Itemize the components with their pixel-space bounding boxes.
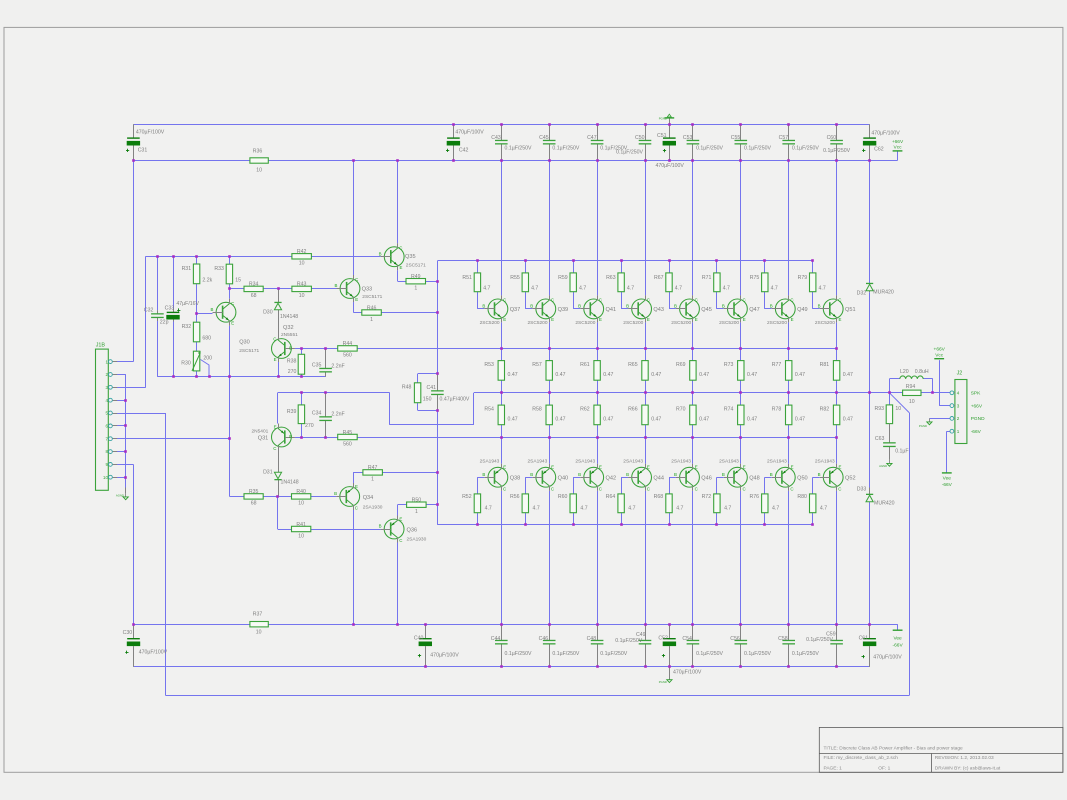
svg-text:C55: C55 <box>731 135 741 141</box>
svg-text:0.1µF/250V: 0.1µF/250V <box>505 145 532 151</box>
svg-text:E: E <box>551 465 554 470</box>
svg-text:4.7: 4.7 <box>483 286 490 292</box>
svg-text:470µF/100V: 470µF/100V <box>139 649 168 655</box>
svg-text:0.1µF/250V: 0.1µF/250V <box>823 148 850 154</box>
svg-text:10: 10 <box>298 533 304 539</box>
svg-text:R53: R53 <box>484 362 494 368</box>
svg-text:R43: R43 <box>297 282 307 288</box>
svg-text:10: 10 <box>909 399 915 405</box>
svg-text:B: B <box>818 304 821 309</box>
svg-text:E: E <box>647 317 650 322</box>
svg-text:C44: C44 <box>491 636 501 642</box>
svg-text:E: E <box>743 465 746 470</box>
svg-text:R61: R61 <box>580 362 590 368</box>
svg-text:R82: R82 <box>820 406 830 412</box>
svg-text:2.2k: 2.2k <box>202 278 212 284</box>
svg-text:4.7: 4.7 <box>675 286 682 292</box>
svg-text:R32: R32 <box>182 324 192 330</box>
svg-text:0.1µF/250V: 0.1µF/250V <box>615 638 642 644</box>
svg-text:Q32: Q32 <box>283 325 294 331</box>
svg-text:C32: C32 <box>144 307 154 313</box>
svg-text:4.7: 4.7 <box>723 286 730 292</box>
svg-text:0.47: 0.47 <box>795 372 805 378</box>
svg-text:R45: R45 <box>343 430 353 436</box>
svg-text:C35: C35 <box>312 363 322 369</box>
svg-text:2SA1943: 2SA1943 <box>575 458 595 464</box>
svg-text:R68: R68 <box>654 494 664 500</box>
svg-text:AGND: AGND <box>116 494 124 498</box>
svg-text:C60: C60 <box>827 135 837 141</box>
svg-text:MUR420: MUR420 <box>873 290 894 296</box>
svg-text:R54: R54 <box>484 406 494 412</box>
svg-text:2N5551: 2N5551 <box>281 332 298 338</box>
svg-text:C: C <box>551 298 554 303</box>
svg-text:C: C <box>599 486 602 491</box>
svg-text:R31: R31 <box>182 266 192 272</box>
svg-text:R69: R69 <box>676 362 686 368</box>
svg-text:0.8uH: 0.8uH <box>915 369 929 375</box>
svg-text:1: 1 <box>371 477 374 483</box>
svg-text:C: C <box>743 298 746 303</box>
svg-text:2SA1943: 2SA1943 <box>671 458 691 464</box>
svg-text:C: C <box>399 538 402 543</box>
svg-text:2N5401: 2N5401 <box>251 428 268 434</box>
svg-text:Q39: Q39 <box>558 307 569 313</box>
svg-text:C: C <box>355 506 358 511</box>
svg-text:4.7: 4.7 <box>676 506 683 512</box>
svg-text:Q41: Q41 <box>606 307 617 313</box>
svg-text:E: E <box>839 317 842 322</box>
svg-text:R30: R30 <box>181 360 191 366</box>
svg-text:68: 68 <box>251 501 257 507</box>
svg-text:4.7: 4.7 <box>531 286 538 292</box>
svg-text:0.1µF/250V: 0.1µF/250V <box>616 149 643 155</box>
svg-text:C: C <box>273 446 276 451</box>
svg-text:R33: R33 <box>214 266 224 272</box>
svg-text:B: B <box>626 472 629 477</box>
svg-text:Q40: Q40 <box>558 475 569 481</box>
svg-text:R64: R64 <box>606 494 616 500</box>
svg-text:0.1µF/250V: 0.1µF/250V <box>792 145 819 151</box>
svg-text:C: C <box>551 486 554 491</box>
svg-text:DRAWN BY: (c) asb@aws-it.at: DRAWN BY: (c) asb@aws-it.at <box>935 766 1001 772</box>
svg-text:0.47: 0.47 <box>555 372 565 378</box>
svg-text:470µF/100V: 470µF/100V <box>136 129 165 135</box>
svg-text:0.47: 0.47 <box>747 417 757 423</box>
svg-text:B: B <box>482 304 485 309</box>
svg-text:R62: R62 <box>580 406 590 412</box>
svg-text:270: 270 <box>288 369 297 375</box>
svg-text:B: B <box>722 304 725 309</box>
svg-text:10: 10 <box>299 293 305 299</box>
svg-text:J1B: J1B <box>96 342 106 348</box>
svg-text:E: E <box>599 317 602 322</box>
svg-text:Q36: Q36 <box>407 527 418 533</box>
svg-text:E: E <box>551 317 554 322</box>
svg-text:4.7: 4.7 <box>485 506 492 512</box>
svg-text:C: C <box>790 298 793 303</box>
svg-text:E: E <box>355 484 358 489</box>
svg-text:0.1µF/250V: 0.1µF/250V <box>600 651 627 657</box>
svg-text:B: B <box>210 307 213 312</box>
svg-text:REVISION: 1.2, 2013.02.03: REVISION: 1.2, 2013.02.03 <box>935 755 994 761</box>
svg-text:R71: R71 <box>702 275 712 281</box>
svg-text:Q31: Q31 <box>258 435 269 441</box>
svg-text:10: 10 <box>256 167 262 173</box>
svg-text:R57: R57 <box>532 362 542 368</box>
svg-text:R38: R38 <box>287 358 297 364</box>
svg-text:B: B <box>379 524 382 529</box>
svg-text:B: B <box>289 434 292 439</box>
svg-text:R74: R74 <box>724 406 734 412</box>
svg-text:2SC5171: 2SC5171 <box>406 262 426 268</box>
svg-text:0.1µF: 0.1µF <box>895 448 908 454</box>
svg-text:0.47: 0.47 <box>699 417 709 423</box>
svg-text:B: B <box>674 304 677 309</box>
svg-text:0.47µF/400V: 0.47µF/400V <box>440 397 470 403</box>
svg-text:Q42: Q42 <box>606 475 617 481</box>
svg-text:B: B <box>289 346 292 351</box>
svg-text:R56: R56 <box>510 494 520 500</box>
svg-text:2SC5171: 2SC5171 <box>239 348 259 354</box>
svg-text:Q44: Q44 <box>653 475 664 481</box>
svg-text:C42: C42 <box>459 148 469 154</box>
svg-text:0.1µF/250V: 0.1µF/250V <box>552 145 579 151</box>
svg-text:TITLE: Discrete Class AB Pow: TITLE: Discrete Class AB Power Amplifier… <box>824 745 963 751</box>
svg-text:B: B <box>674 472 677 477</box>
svg-text:E: E <box>503 317 506 322</box>
svg-text:R66: R66 <box>628 406 638 412</box>
svg-text:R36: R36 <box>253 149 263 155</box>
svg-text:0.47: 0.47 <box>843 372 853 378</box>
svg-text:C50: C50 <box>635 135 645 141</box>
svg-text:Q38: Q38 <box>510 475 521 481</box>
svg-text:B: B <box>530 472 533 477</box>
svg-text:OF: 1: OF: 1 <box>878 766 890 772</box>
svg-text:C: C <box>503 298 506 303</box>
svg-text:Q30: Q30 <box>239 340 250 346</box>
svg-text:10: 10 <box>298 501 304 507</box>
svg-text:R75: R75 <box>750 275 760 281</box>
svg-text:C62: C62 <box>874 147 884 153</box>
svg-text:R47: R47 <box>368 465 378 471</box>
svg-text:0.47: 0.47 <box>747 372 757 378</box>
svg-text:2SC5200: 2SC5200 <box>671 320 691 326</box>
svg-text:10: 10 <box>895 406 901 412</box>
svg-text:2SC5200: 2SC5200 <box>719 320 739 326</box>
svg-text:R65: R65 <box>628 362 638 368</box>
svg-text:C: C <box>503 486 506 491</box>
svg-text:Vcc: Vcc <box>935 352 944 358</box>
svg-text:R80: R80 <box>797 494 807 500</box>
svg-text:150: 150 <box>423 397 432 403</box>
svg-text:0.47: 0.47 <box>508 417 518 423</box>
svg-text:Q34: Q34 <box>363 495 374 501</box>
svg-text:C: C <box>399 245 402 250</box>
svg-text:2SA1943: 2SA1943 <box>815 458 835 464</box>
svg-text:Q45: Q45 <box>701 307 712 313</box>
svg-text:Vcc: Vcc <box>894 145 903 151</box>
svg-text:C: C <box>743 486 746 491</box>
svg-text:2SC5200: 2SC5200 <box>815 320 835 326</box>
svg-text:C: C <box>838 486 841 491</box>
svg-text:10: 10 <box>299 261 305 267</box>
svg-text:-66V: -66V <box>942 482 953 488</box>
svg-text:B: B <box>626 304 629 309</box>
svg-text:R60: R60 <box>558 494 568 500</box>
svg-text:E: E <box>791 465 794 470</box>
svg-text:R58: R58 <box>532 406 542 412</box>
svg-text:4.7: 4.7 <box>580 506 587 512</box>
svg-text:0.1µF/250V: 0.1µF/250V <box>505 651 532 657</box>
svg-text:0.47: 0.47 <box>795 417 805 423</box>
svg-text:4.7: 4.7 <box>724 506 731 512</box>
svg-text:C43: C43 <box>491 135 501 141</box>
svg-text:B: B <box>578 472 581 477</box>
svg-text:D30: D30 <box>263 310 273 316</box>
svg-text:B: B <box>770 472 773 477</box>
svg-text:C61: C61 <box>859 635 869 641</box>
svg-text:4.7: 4.7 <box>579 286 586 292</box>
svg-text:FILE: my_discrete_class_ab_: FILE: my_discrete_class_ab_2.sch <box>824 755 899 761</box>
svg-text:Q51: Q51 <box>845 307 856 313</box>
svg-text:Q47: Q47 <box>749 307 760 313</box>
svg-text:0.1µF/250V: 0.1µF/250V <box>744 651 771 657</box>
svg-text:E: E <box>399 516 402 521</box>
svg-text:0.47: 0.47 <box>843 417 853 423</box>
svg-text:C56: C56 <box>730 636 740 642</box>
svg-text:Vee: Vee <box>893 636 902 642</box>
svg-text:1: 1 <box>370 317 373 323</box>
svg-text:1: 1 <box>414 286 417 292</box>
svg-text:C54: C54 <box>682 636 692 642</box>
svg-text:2.2nF: 2.2nF <box>331 411 344 417</box>
svg-text:22p: 22p <box>160 320 169 326</box>
svg-text:0.47: 0.47 <box>651 417 661 423</box>
svg-text:3: 3 <box>957 403 960 408</box>
svg-text:2: 2 <box>957 416 960 421</box>
svg-text:0.47: 0.47 <box>555 417 565 423</box>
svg-text:C57: C57 <box>779 135 789 141</box>
svg-text:470µF/100V: 470µF/100V <box>873 654 902 660</box>
svg-text:E: E <box>695 317 698 322</box>
svg-text:2SC5200: 2SC5200 <box>480 320 500 326</box>
svg-text:R48: R48 <box>402 384 412 390</box>
svg-text:E: E <box>791 317 794 322</box>
svg-text:E: E <box>695 465 698 470</box>
svg-text:E: E <box>355 297 358 302</box>
svg-text:C47: C47 <box>587 135 597 141</box>
svg-text:680: 680 <box>202 336 211 342</box>
svg-text:0.1µF/250V: 0.1µF/250V <box>552 651 579 657</box>
svg-text:-66V: -66V <box>971 429 982 435</box>
svg-text:R50: R50 <box>412 498 422 504</box>
svg-text:C51: C51 <box>657 133 667 139</box>
svg-text:0.47: 0.47 <box>603 417 613 423</box>
svg-text:B: B <box>334 491 337 496</box>
svg-text:C: C <box>273 336 276 341</box>
svg-text:R34: R34 <box>249 282 259 288</box>
svg-text:R55: R55 <box>510 275 520 281</box>
svg-text:PAGE: 1: PAGE: 1 <box>824 766 843 772</box>
svg-text:B: B <box>722 472 725 477</box>
svg-text:+66V: +66V <box>934 346 946 352</box>
svg-text:270: 270 <box>305 423 314 429</box>
svg-text:2SA1943: 2SA1943 <box>480 458 500 464</box>
svg-text:C: C <box>695 298 698 303</box>
svg-text:68: 68 <box>251 293 257 299</box>
svg-text:E: E <box>400 265 403 270</box>
svg-text:2.2nF: 2.2nF <box>331 363 344 369</box>
svg-text:0.47: 0.47 <box>603 372 613 378</box>
svg-text:E: E <box>839 465 842 470</box>
svg-text:C63: C63 <box>875 436 885 442</box>
svg-text:Q52: Q52 <box>845 475 856 481</box>
svg-text:E: E <box>743 317 746 322</box>
svg-text:470µF/100V: 470µF/100V <box>673 670 702 676</box>
svg-text:R94: R94 <box>906 384 916 390</box>
svg-text:C33: C33 <box>165 306 175 312</box>
svg-text:B: B <box>530 304 533 309</box>
svg-text:C: C <box>231 301 234 306</box>
svg-text:R81: R81 <box>820 362 830 368</box>
svg-text:1N4148: 1N4148 <box>280 314 298 320</box>
svg-text:2SC5200: 2SC5200 <box>575 320 595 326</box>
svg-text:4.7: 4.7 <box>772 506 779 512</box>
svg-text:4.7: 4.7 <box>820 506 827 512</box>
svg-text:2SC5200: 2SC5200 <box>767 320 787 326</box>
svg-text:R44: R44 <box>343 341 353 347</box>
svg-text:+66V: +66V <box>892 139 904 145</box>
svg-text:R41: R41 <box>296 522 306 528</box>
svg-text:C48: C48 <box>587 636 597 642</box>
svg-text:C: C <box>838 298 841 303</box>
svg-text:C: C <box>647 486 650 491</box>
svg-text:PGND: PGND <box>659 116 667 120</box>
svg-text:-66V: -66V <box>893 642 904 648</box>
svg-text:R67: R67 <box>654 275 664 281</box>
svg-text:2SA1943: 2SA1943 <box>623 458 643 464</box>
svg-text:R51: R51 <box>462 275 472 281</box>
svg-text:1N4148: 1N4148 <box>281 479 299 485</box>
svg-text:D33: D33 <box>857 487 867 493</box>
svg-text:R35: R35 <box>249 489 259 495</box>
svg-text:MUR420: MUR420 <box>874 501 895 507</box>
svg-text:0.47: 0.47 <box>699 372 709 378</box>
svg-text:C: C <box>355 277 358 282</box>
svg-text:4.7: 4.7 <box>533 506 540 512</box>
svg-text:0.47: 0.47 <box>651 372 661 378</box>
svg-text:C: C <box>790 486 793 491</box>
svg-text:200: 200 <box>203 356 212 362</box>
svg-text:C: C <box>695 486 698 491</box>
svg-text:B: B <box>379 251 382 256</box>
svg-text:2SC5200: 2SC5200 <box>623 320 643 326</box>
svg-text:Q46: Q46 <box>701 475 712 481</box>
svg-text:4: 4 <box>957 391 960 396</box>
svg-text:1: 1 <box>957 429 960 434</box>
svg-text:2SA1943: 2SA1943 <box>719 458 739 464</box>
svg-text:2SA1943: 2SA1943 <box>767 458 787 464</box>
svg-text:R73: R73 <box>724 362 734 368</box>
svg-text:2SA1943: 2SA1943 <box>528 458 548 464</box>
svg-text:C52: C52 <box>658 636 668 642</box>
svg-text:R49: R49 <box>411 274 421 280</box>
svg-text:C34: C34 <box>312 411 322 417</box>
svg-text:B: B <box>482 472 485 477</box>
svg-text:R59: R59 <box>558 275 568 281</box>
svg-text:C46: C46 <box>539 636 549 642</box>
svg-text:R93: R93 <box>874 406 884 412</box>
svg-text:AGND: AGND <box>879 464 887 468</box>
svg-text:+66V: +66V <box>971 403 983 409</box>
svg-text:C41: C41 <box>426 385 436 391</box>
svg-text:2SA1930: 2SA1930 <box>407 537 427 543</box>
svg-text:Q50: Q50 <box>797 475 808 481</box>
svg-text:C40: C40 <box>414 636 424 642</box>
svg-text:B: B <box>818 472 821 477</box>
svg-text:560: 560 <box>343 441 352 447</box>
svg-text:C31: C31 <box>138 148 148 154</box>
svg-text:0.1µF/250V: 0.1µF/250V <box>744 145 771 151</box>
svg-text:R46: R46 <box>367 305 377 311</box>
svg-text:1: 1 <box>415 509 418 515</box>
svg-text:C58: C58 <box>778 636 788 642</box>
svg-text:0.1µF/250V: 0.1µF/250V <box>696 651 723 657</box>
svg-text:R79: R79 <box>798 275 808 281</box>
svg-text:PGND: PGND <box>919 424 927 428</box>
svg-text:C30: C30 <box>123 630 133 636</box>
svg-text:E: E <box>503 465 506 470</box>
svg-text:E: E <box>231 321 234 326</box>
svg-text:2SA1930: 2SA1930 <box>363 504 383 510</box>
svg-text:R72: R72 <box>702 494 712 500</box>
svg-text:R78: R78 <box>772 406 782 412</box>
svg-text:C: C <box>647 298 650 303</box>
svg-text:4.7: 4.7 <box>627 286 634 292</box>
svg-text:R70: R70 <box>676 406 686 412</box>
svg-text:Q35: Q35 <box>405 254 416 260</box>
svg-text:R77: R77 <box>772 362 782 368</box>
svg-text:10: 10 <box>103 475 108 480</box>
svg-text:2SC5200: 2SC5200 <box>528 320 548 326</box>
svg-text:4.7: 4.7 <box>628 506 635 512</box>
svg-text:2SC5171: 2SC5171 <box>362 294 382 300</box>
svg-text:10: 10 <box>256 630 262 636</box>
svg-text:J2: J2 <box>957 371 963 377</box>
svg-text:PGND: PGND <box>659 680 667 684</box>
svg-text:15: 15 <box>235 278 241 284</box>
svg-text:470µF/100V: 470µF/100V <box>871 131 900 137</box>
svg-text:Q43: Q43 <box>653 307 664 313</box>
svg-text:B: B <box>578 304 581 309</box>
svg-text:D31: D31 <box>263 469 273 475</box>
svg-text:E: E <box>647 465 650 470</box>
svg-text:4.7: 4.7 <box>771 286 778 292</box>
svg-text:E: E <box>274 424 277 429</box>
svg-text:R76: R76 <box>749 494 759 500</box>
svg-text:R37: R37 <box>253 612 263 618</box>
svg-text:C45: C45 <box>539 135 549 141</box>
svg-text:0.47: 0.47 <box>508 372 518 378</box>
svg-text:470µF/100V: 470µF/100V <box>430 652 459 658</box>
svg-text:R39: R39 <box>287 409 297 415</box>
svg-text:SPK: SPK <box>971 391 981 397</box>
svg-text:PGND: PGND <box>971 416 985 422</box>
svg-text:470µF/100V: 470µF/100V <box>656 163 685 169</box>
svg-text:0.1µF/250V: 0.1µF/250V <box>792 651 819 657</box>
svg-text:L20: L20 <box>900 369 909 375</box>
